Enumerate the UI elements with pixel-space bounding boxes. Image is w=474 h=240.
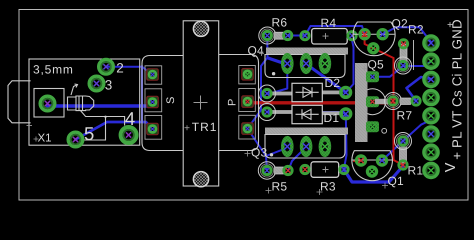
pad SV1-1 [424, 36, 438, 50]
Q5 pad2 lead to R7 [375, 99, 389, 104]
Q5 marker circle [382, 128, 387, 133]
wire: header pad 3 to R7 pad2 [407, 77, 432, 101]
pad R7-2 [412, 97, 420, 105]
svg-text:R7: R7 [397, 109, 413, 123]
pad R7-1 [389, 97, 397, 105]
TR1 mounting hole top [193, 21, 208, 36]
pad Q2-2 [378, 30, 387, 39]
switch contact path to pads 5/4 [80, 110, 125, 140]
pad TR1 S3 [147, 123, 158, 134]
resistor R6 body circle [259, 27, 276, 44]
pad R1-1 [399, 137, 407, 145]
pad A2 [300, 53, 313, 74]
connector X1 body outline [8, 59, 140, 145]
pad TR1 S1 [147, 69, 158, 80]
svg-text:R5: R5 [272, 180, 288, 194]
dimension tick near X1 [27, 125, 33, 127]
svg-text:S: S [165, 97, 177, 104]
wire: R3 pad2 to R1 pad2 (thick) [344, 166, 403, 182]
wire: D1 left pad to D1 right pad [267, 112, 346, 114]
wire: Q5 top pad to R2 pad1 [373, 66, 404, 77]
jack sleeve pad box [34, 89, 64, 118]
pad D1 left [259, 104, 276, 121]
device B body outline [265, 135, 345, 159]
svg-text:Q5: Q5 [368, 58, 385, 72]
transformer TR1 body [183, 21, 219, 186]
transistor Q1 outline [352, 151, 393, 181]
svg-text:4: 4 [125, 108, 135, 129]
svg-text:P: P [227, 99, 239, 106]
diode D1 lead left [271, 110, 292, 114]
pad Q5-2 [366, 96, 379, 107]
diode D2 body [292, 83, 322, 101]
pad Q1-2 [378, 156, 387, 165]
svg-text:+ PL VT Cs Ci PL GND: + PL VT Cs Ci PL GND [450, 19, 465, 160]
pad X1-3 [89, 76, 104, 91]
S pin boxes [145, 66, 162, 139]
TR1 secondary tab outline [142, 56, 183, 151]
wire: jack pad2 to TR1 S-pad1 [106, 67, 153, 75]
wire: Q2 left pad down joining vertical red bus [365, 34, 394, 58]
wire: R6 pad1 branch to oval pad A1 (thick) [268, 58, 287, 65]
diode D1 lead right [322, 111, 340, 115]
resistor R1 body circle [395, 133, 412, 150]
svg-text:Q1: Q1 [388, 174, 405, 188]
pad Q5-1 [366, 71, 379, 82]
device A heatsink bar [266, 48, 348, 55]
wire: R4 pad2 down to D2 right pad [346, 40, 354, 92]
pad B2 [300, 136, 313, 157]
pad R4-1 [301, 32, 309, 40]
svg-text:3,5mm: 3,5mm [33, 63, 74, 77]
pad R2-1 [399, 61, 407, 69]
pad SV1-4 [424, 91, 438, 105]
wire: D1 right pad down to R3 pad2 [344, 114, 347, 169]
pad SV1-5 [424, 109, 438, 123]
pad R3-2 [340, 165, 348, 173]
pad R1-2 [399, 161, 407, 169]
svg-text:R3: R3 [320, 180, 336, 194]
pad R5-1 [263, 166, 271, 174]
pad TR1 P3 [242, 123, 253, 134]
device B heatsink bar [265, 128, 348, 135]
wire: jack sleeve pad to TR1 S-pad2 (thick) [48, 103, 153, 107]
pad B1 [281, 136, 294, 157]
pad X1-2 [99, 60, 114, 75]
TR1 primary tab outline [219, 55, 259, 151]
resistor R7 body circle [385, 93, 402, 110]
switch lever mark [71, 84, 78, 95]
svg-text:V: V [443, 162, 459, 172]
pad R6-2 [284, 31, 292, 39]
pad D2 right [341, 88, 351, 98]
resistor R3 body box [311, 162, 339, 178]
resistor R5 body circle [258, 162, 275, 179]
transistor Q5 body bar [355, 63, 368, 142]
resistor R2 body circle [395, 57, 412, 74]
board outline frame [19, 10, 468, 201]
header silk line [413, 40, 415, 70]
device A body outline [265, 55, 345, 78]
diode D1 body [292, 105, 322, 123]
resistor R7 lead hatch [401, 98, 411, 105]
pad X1-4 [121, 127, 137, 143]
pad SV1-6 [424, 127, 438, 141]
pad Q1-3 [368, 167, 377, 176]
wire: TR1 P-pad3 up to R6 pad1 [248, 41, 268, 129]
pad TR1 S2 [147, 96, 158, 107]
transistor Q2 outline [353, 22, 395, 56]
resistor R1 lead hatch [400, 147, 407, 163]
transistor Q5 circle [360, 89, 386, 115]
device A pin1 dot [272, 72, 275, 75]
svg-text:D1: D1 [324, 111, 340, 125]
wire: oval A2 to D2 right pad (thick) [306, 64, 346, 92]
pad Q2-1 [360, 30, 369, 39]
device B pin1 dot [270, 153, 273, 156]
wire: main red horizontal P-pad2 to R7 pad1 (thick) [248, 101, 391, 104]
pad TR1 P2 [242, 96, 253, 107]
wire: oval A1 down to D2 left pad [267, 65, 287, 94]
pad Q1-1 [357, 156, 366, 165]
P pin boxes [239, 66, 256, 140]
wire: R4 pad1 to Q2 left pad [305, 26, 365, 36]
pad R4-2 [348, 32, 356, 40]
pad D2 left [259, 85, 276, 102]
wire: R2 pad1 to header pad 2 [403, 62, 431, 67]
svg-text:R4: R4 [321, 16, 337, 30]
svg-text:D2: D2 [325, 76, 341, 90]
diode D2 lead right [322, 91, 340, 95]
svg-text:2: 2 [116, 61, 124, 76]
pad SV1-8 [424, 163, 438, 177]
pad D1 right [341, 109, 351, 119]
pad SV1-3 [424, 72, 438, 86]
pad X1 sleeve [40, 96, 55, 111]
TR1 mounting hole bottom [193, 172, 208, 187]
wire: P-pad3 to R5 pad1 and oval B1 [248, 129, 288, 171]
pad R5-2 [284, 166, 292, 174]
resistor R4 body box [312, 29, 348, 45]
pad A3 [319, 53, 332, 74]
svg-text:5: 5 [84, 123, 94, 144]
TR1 center cross [194, 96, 208, 110]
pad R6-1 [263, 31, 271, 39]
svg-text:R2: R2 [408, 23, 424, 37]
svg-text:X1: X1 [38, 133, 52, 145]
jack barrel outside board edge [8, 81, 31, 123]
pad X1-5 [68, 132, 83, 147]
pad R2-2 [399, 40, 407, 48]
wire: oval B2 to R5 pad2 [289, 147, 307, 170]
wire: Q2 right pad to pin header pad 1 [383, 27, 431, 42]
svg-text:R1: R1 [408, 164, 424, 178]
svg-text:TR1: TR1 [192, 120, 218, 134]
diode D2 lead left [271, 92, 292, 96]
svg-text:Q3: Q3 [251, 146, 268, 160]
resistor R6 lead hatch [275, 32, 284, 39]
wire: vertical at x=142 to S-pad3 [141, 66, 143, 122]
pad R3-1 [301, 165, 309, 173]
pad TR1 P1 [242, 69, 253, 80]
pad Q2-3 [369, 44, 378, 53]
resistor R2 lead hatch [400, 44, 407, 62]
svg-text:Q2: Q2 [392, 17, 409, 31]
pad SV1-2 [424, 54, 438, 68]
svg-text:3: 3 [105, 78, 113, 93]
3.5mm plug drawing [68, 96, 94, 111]
wire: red stub at Q1 left pad [354, 160, 361, 163]
svg-text:R6: R6 [272, 16, 288, 30]
wire: vertical red bus x=393.5 to R1 pad2 [394, 58, 404, 165]
pad SV1-7 [424, 145, 438, 159]
wire: R6 pad2 to R4 pad1 [288, 35, 303, 37]
pad A1 [281, 53, 294, 74]
wire: jack pad5 to pad4 net horizontal [76, 122, 153, 140]
pad B3 [319, 136, 332, 157]
wire: Q1 right pad via R1 pad1 to header pad 6 [382, 120, 431, 161]
resistor R5 lead hatch [275, 167, 284, 174]
pad Q5-3 [366, 121, 379, 132]
